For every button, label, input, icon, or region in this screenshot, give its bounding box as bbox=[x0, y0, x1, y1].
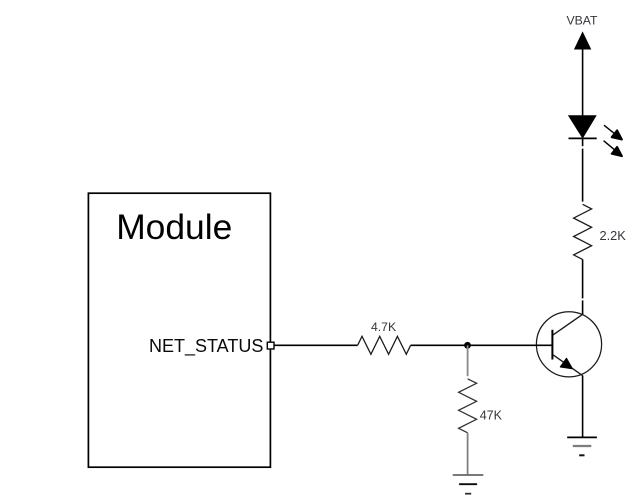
value label 47K bbox=[480, 409, 503, 423]
module name label bbox=[116, 207, 232, 247]
wire resistor 47K to ground bbox=[467, 433, 469, 475]
pin NET_STATUS square bbox=[267, 342, 274, 349]
value label 2.2K bbox=[600, 228, 627, 243]
transistor Q1 emitter arrow bbox=[560, 358, 572, 368]
wire VBAT to LED anode bbox=[582, 49, 584, 116]
svg-text:47K: 47K bbox=[480, 409, 503, 423]
svg-text:NET_STATUS: NET_STATUS bbox=[149, 336, 263, 357]
LED D1 triangle (anode) bbox=[569, 116, 596, 138]
wire pin to resistor 4.7K bbox=[274, 344, 358, 346]
svg-text:Module: Module bbox=[116, 207, 232, 247]
pin name label NET_STATUS bbox=[149, 336, 263, 357]
ground symbol below resistor 47K bbox=[453, 475, 484, 494]
junction node dot bbox=[464, 342, 471, 349]
wire node to resistor 47K bbox=[467, 345, 469, 376]
svg-text:VBAT: VBAT bbox=[567, 14, 598, 28]
LED light emission arrow 1 bbox=[604, 125, 622, 139]
resistor 4.7K zigzag bbox=[358, 336, 411, 354]
module box U1 bbox=[88, 193, 270, 467]
wire LED cathode to resistor (with small gap) bbox=[582, 138, 584, 201]
transistor Q1 circle bbox=[536, 312, 601, 377]
resistor 47K zigzag bbox=[459, 379, 477, 433]
wire emitter to ground bbox=[582, 376, 584, 438]
power symbol VBAT arrow bbox=[575, 33, 591, 50]
transistor Q1 base bar bbox=[551, 330, 553, 360]
transistor Q1 collector line bbox=[553, 314, 583, 335]
value label 4.7K bbox=[371, 320, 396, 334]
wire resistor to collector bbox=[582, 259, 584, 314]
svg-text:4.7K: 4.7K bbox=[371, 320, 396, 334]
wire resistor 4.7K to transistor base bbox=[411, 344, 553, 346]
net VBAT label bbox=[567, 14, 598, 28]
resistor 2.2K zigzag bbox=[574, 204, 592, 259]
transistor Q1 emitter line bbox=[553, 355, 583, 376]
svg-text:2.2K: 2.2K bbox=[600, 228, 627, 243]
LED light emission arrow 2 bbox=[604, 141, 622, 157]
ground symbol below transistor bbox=[567, 437, 597, 455]
LED D1 cathode bar bbox=[569, 137, 597, 139]
